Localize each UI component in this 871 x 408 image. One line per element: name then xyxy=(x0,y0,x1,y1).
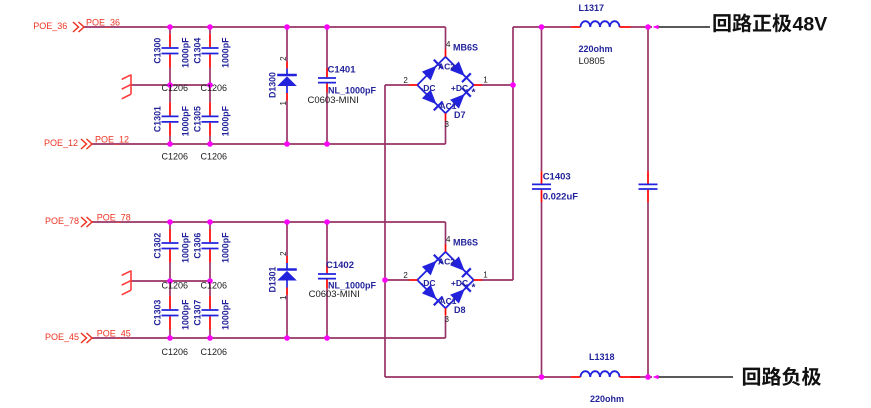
svg-text:L0805: L0805 xyxy=(579,56,605,67)
svg-text:1000pF: 1000pF xyxy=(221,37,231,68)
svg-text:C1206: C1206 xyxy=(162,152,189,162)
svg-text:C1206: C1206 xyxy=(162,347,189,357)
svg-text:48V: 48V xyxy=(793,14,828,36)
svg-text:2: 2 xyxy=(403,271,408,280)
svg-text:C1206: C1206 xyxy=(201,281,228,291)
svg-text:C1305: C1305 xyxy=(193,106,203,132)
svg-text:D1300: D1300 xyxy=(267,72,277,98)
svg-text:1: 1 xyxy=(483,271,488,280)
svg-text:*: * xyxy=(472,283,476,294)
svg-text:+DC: +DC xyxy=(451,83,468,93)
svg-text:POE_12: POE_12 xyxy=(95,135,129,145)
svg-text:AC1: AC1 xyxy=(439,296,456,306)
svg-text:C1206: C1206 xyxy=(162,83,189,93)
svg-text:C1303: C1303 xyxy=(153,300,163,326)
svg-text:MB6S: MB6S xyxy=(453,238,478,248)
svg-text:3: 3 xyxy=(445,120,450,129)
svg-text:L1317: L1317 xyxy=(579,3,605,13)
svg-text:2: 2 xyxy=(403,76,408,85)
svg-text:C1206: C1206 xyxy=(201,83,228,93)
svg-text:+DC: +DC xyxy=(451,278,468,288)
svg-text:C1300: C1300 xyxy=(153,38,163,64)
svg-text:C0603-MINI: C0603-MINI xyxy=(309,289,360,300)
svg-text:MB6S: MB6S xyxy=(453,43,478,53)
svg-text:C1307: C1307 xyxy=(193,300,203,326)
svg-text:D7: D7 xyxy=(454,110,466,120)
svg-text:1: 1 xyxy=(279,295,288,300)
svg-text:2: 2 xyxy=(279,56,288,61)
svg-text:1: 1 xyxy=(483,76,488,85)
svg-text:C1206: C1206 xyxy=(162,281,189,291)
svg-text:3: 3 xyxy=(445,315,450,324)
svg-text:220ohm: 220ohm xyxy=(579,44,613,54)
svg-text:4: 4 xyxy=(446,235,451,244)
svg-text:1000pF: 1000pF xyxy=(221,105,231,136)
svg-text:C0603-MINI: C0603-MINI xyxy=(308,95,359,106)
svg-text:1000pF: 1000pF xyxy=(181,37,191,68)
svg-text:POE_36: POE_36 xyxy=(86,18,120,28)
svg-text:POE_45: POE_45 xyxy=(45,332,79,342)
svg-text:POE_78: POE_78 xyxy=(45,216,79,226)
svg-text:POE_36: POE_36 xyxy=(33,21,67,31)
svg-text:1000pF: 1000pF xyxy=(181,105,191,136)
svg-text:1: 1 xyxy=(279,101,288,106)
svg-text:NL_1000pF: NL_1000pF xyxy=(328,86,377,96)
svg-text:1000pF: 1000pF xyxy=(221,232,231,263)
svg-text:220ohm: 220ohm xyxy=(590,394,624,404)
svg-text:AC2: AC2 xyxy=(438,62,455,72)
svg-text:1000pF: 1000pF xyxy=(181,299,191,330)
svg-text:1000pF: 1000pF xyxy=(221,299,231,330)
svg-text:C1301: C1301 xyxy=(153,106,163,132)
svg-text:POE_45: POE_45 xyxy=(97,329,131,339)
svg-text:C1304: C1304 xyxy=(193,38,203,64)
svg-text:0.022uF: 0.022uF xyxy=(543,192,579,203)
svg-text:-DC: -DC xyxy=(420,83,435,93)
svg-text:1000pF: 1000pF xyxy=(181,232,191,263)
svg-text:*: * xyxy=(472,88,476,99)
svg-text:D8: D8 xyxy=(454,305,466,315)
svg-text:2: 2 xyxy=(279,251,288,256)
svg-text:C1206: C1206 xyxy=(201,347,228,357)
svg-text:-DC: -DC xyxy=(420,278,435,288)
svg-text:C1302: C1302 xyxy=(153,233,163,259)
svg-text:C1402: C1402 xyxy=(326,260,354,271)
svg-text:C1401: C1401 xyxy=(328,65,357,76)
svg-text:C1206: C1206 xyxy=(201,152,228,162)
svg-text:L1318: L1318 xyxy=(589,352,615,362)
svg-text:4: 4 xyxy=(446,40,451,49)
svg-text:C1403: C1403 xyxy=(543,172,571,183)
svg-text:POE_12: POE_12 xyxy=(44,138,78,148)
svg-text:AC1: AC1 xyxy=(439,101,456,111)
svg-text:POE_78: POE_78 xyxy=(97,213,131,223)
svg-text:C1306: C1306 xyxy=(193,233,203,259)
svg-text:AC2: AC2 xyxy=(438,257,455,267)
svg-text:D1301: D1301 xyxy=(267,266,277,292)
